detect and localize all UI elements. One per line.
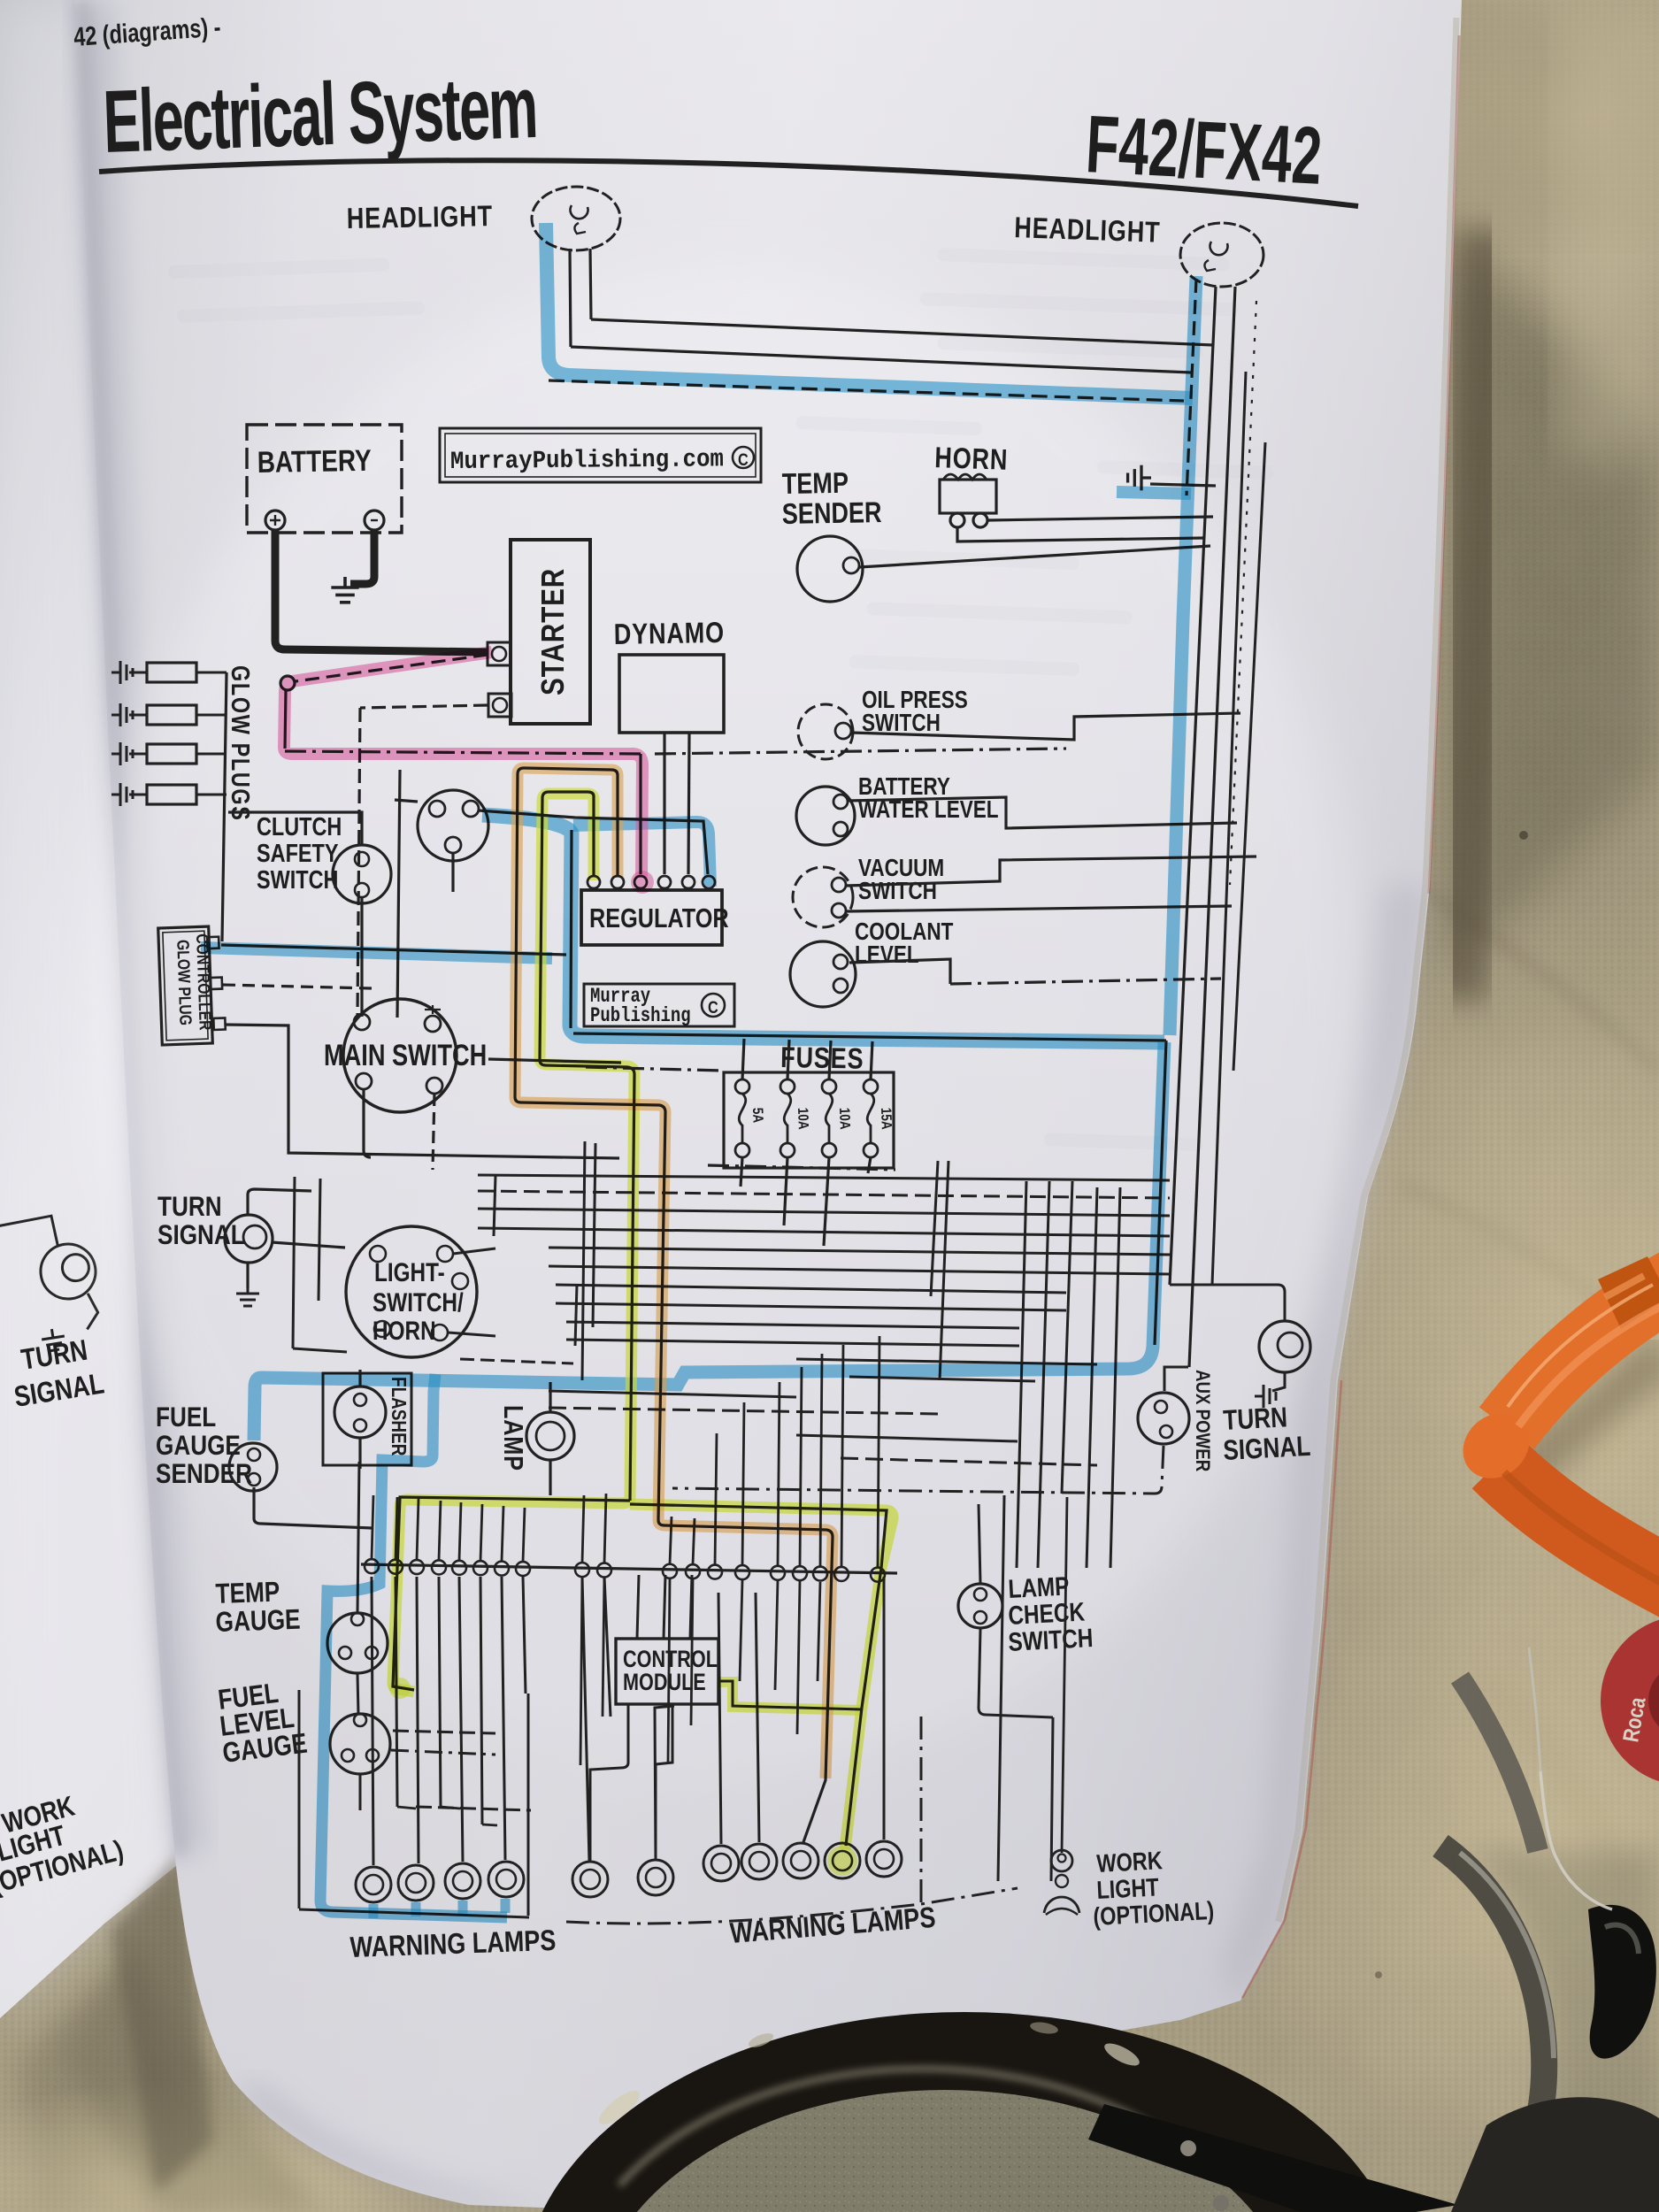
turn signal right lamp <box>1259 1321 1310 1372</box>
wire <box>931 1161 938 1296</box>
highlight blue right drop <box>1170 276 1196 1035</box>
vacuum switch <box>793 867 853 927</box>
junction node <box>871 1568 885 1582</box>
wire <box>849 1377 1035 1381</box>
murray publishing small box <box>584 984 734 1026</box>
wire <box>1062 1181 1072 1494</box>
flasher outline box <box>323 1373 411 1465</box>
junction node <box>388 1560 403 1574</box>
wire fuse feeds <box>742 1039 744 1079</box>
wire module top feeds <box>637 1575 639 1639</box>
wire <box>1087 1187 1097 1568</box>
wire battery water level to harness <box>848 797 1237 828</box>
highlight blue trunk right vertical <box>254 1042 1164 1440</box>
wire fuse dash-dot row <box>708 1165 895 1170</box>
warning lamp L4 <box>488 1862 524 1897</box>
warning lamp L1 <box>356 1867 391 1902</box>
junction node <box>432 1560 446 1574</box>
highlight yellow right branch <box>630 1504 893 1849</box>
ground (turn signal right) <box>1255 1385 1276 1408</box>
wire aux power dash-dot long <box>672 1446 1164 1494</box>
junction node <box>813 1567 827 1581</box>
temp gauge <box>327 1613 388 1673</box>
wire riser <box>820 1354 822 1567</box>
wire regulator t2 hook (orange) <box>515 768 833 1842</box>
wire controller terminal 3 L-run <box>225 1025 619 1158</box>
wire connector bottom stub <box>451 853 454 892</box>
wire dashed under blue drop <box>1187 279 1196 495</box>
ground (battery) <box>331 577 358 603</box>
wire riser <box>459 1502 461 1561</box>
wire work light drop <box>1062 1497 1067 1853</box>
junction node <box>495 1562 509 1576</box>
wire <box>566 1322 1019 1328</box>
wire horn to harness <box>987 517 1213 520</box>
wire flasher stubs <box>358 1370 361 1386</box>
wire trunk horizontal (blue highlighted) <box>573 1033 1166 1041</box>
wire controller terminal 1 (blue) <box>221 945 566 955</box>
wire right headlight main drop <box>1170 287 1216 1285</box>
junction node <box>793 1566 807 1580</box>
wire <box>478 1191 1170 1198</box>
light switch / horn <box>346 1226 477 1357</box>
wire right headlight second drop <box>1189 287 1235 1367</box>
wire riser <box>693 1518 695 1564</box>
highlight yellow module link <box>718 1682 860 1710</box>
fuse box <box>724 1072 894 1168</box>
wire riser <box>800 1367 802 1566</box>
wire trunk right vertical under blue <box>1155 1041 1166 1345</box>
wire <box>604 1577 611 1717</box>
wire yellow run right-down <box>540 1060 634 1501</box>
wire clutch switch down <box>360 897 363 1017</box>
junction node <box>410 1560 424 1574</box>
highlight orange main run <box>515 768 833 1778</box>
wire <box>523 1577 526 1694</box>
wire bundle left riser 2 <box>575 1285 577 1346</box>
junction node <box>708 1565 722 1579</box>
wire turn signal right feed <box>1170 1285 1285 1321</box>
wire turn signal right <box>272 1242 345 1248</box>
wire temp sender to harness <box>859 546 1210 567</box>
orange strap <box>1450 1256 1659 1591</box>
junction node <box>516 1562 530 1576</box>
red tape roll Roca <box>1601 1616 1659 1786</box>
aux power connector <box>1138 1393 1189 1444</box>
wire battery positive (thick) <box>275 530 488 652</box>
clutch safety switch <box>333 845 391 903</box>
wire battery negative (thick) <box>350 530 374 584</box>
fuel gauge sender <box>229 1443 277 1491</box>
wire riser <box>778 1382 780 1566</box>
highlight blue lamp stubs <box>369 1904 379 1918</box>
wire misc bottom dashes <box>393 1731 495 1733</box>
wire right bundle vertical 4 <box>1233 442 1265 1071</box>
wire coolant level to harness <box>849 959 950 984</box>
wire <box>480 1577 482 1824</box>
wire riser <box>396 1497 397 1560</box>
wire riser <box>439 1501 441 1560</box>
ground (turn signal) <box>236 1285 259 1306</box>
glow plug controller <box>158 926 227 1045</box>
turn signal lamp (dash) <box>225 1215 273 1263</box>
wire yellow horizontal to gauges <box>393 1497 630 1690</box>
wire fuel gauge dash right <box>391 1750 495 1755</box>
wire <box>459 1577 463 1862</box>
wire S drop to main switch <box>357 708 360 1016</box>
coolant level switch <box>790 941 856 1007</box>
wire lamp stubs <box>549 1382 551 1412</box>
wire vacuum switch to harness <box>846 856 1256 886</box>
wire <box>439 1577 441 1807</box>
wire headlight pair to right <box>591 319 1213 345</box>
title underline rule <box>99 160 1358 206</box>
highlight blue horn ground <box>1117 492 1191 494</box>
wire <box>566 1340 1019 1346</box>
fabric lighting <box>1248 885 1659 1876</box>
wire elbow joins <box>397 1807 416 1809</box>
starter <box>511 540 590 724</box>
wire dashed right margin <box>1230 301 1256 885</box>
wire oil press to harness <box>851 713 1240 740</box>
wire main switch lower pins <box>364 1089 371 1157</box>
temp sender <box>797 536 863 602</box>
fuse F1 5A <box>735 1079 749 1094</box>
wire <box>1017 1181 1026 1568</box>
warning lamp M1 <box>572 1862 608 1897</box>
wire bottom border dash-dot <box>566 1888 1018 1924</box>
wire starter S (dashed) <box>360 705 488 708</box>
wire harness left verticals <box>582 1141 585 1380</box>
dynamo <box>619 655 724 733</box>
wire riser <box>604 1494 606 1563</box>
highlight blue regulator cap <box>573 822 710 887</box>
wire riser <box>372 1495 373 1559</box>
wire glow plug bus <box>222 672 227 941</box>
glow plug 3 <box>111 742 133 765</box>
junction node <box>597 1563 611 1578</box>
wire <box>582 1577 589 1862</box>
wire <box>478 1228 1170 1236</box>
warning lamp R4 <box>825 1843 860 1878</box>
wire riser <box>480 1504 482 1561</box>
warning lamp L2 <box>398 1865 434 1901</box>
fuse F2 10A <box>780 1079 795 1094</box>
wire <box>796 1359 1097 1364</box>
bleed-through ghosting <box>937 248 1229 272</box>
wire <box>502 1577 505 1860</box>
dark round object <box>522 2012 1407 2212</box>
wire module bottoms <box>590 1704 628 1862</box>
glow plug 4 <box>111 783 133 806</box>
wire fuel gauge bottom <box>359 1775 362 1810</box>
warning lamps left box <box>298 1690 301 1909</box>
wire riser <box>417 1499 419 1560</box>
black strap over object <box>1088 2104 1458 2212</box>
wire dropper mid lamps <box>655 1706 674 1860</box>
wire <box>549 1248 1170 1255</box>
junction node <box>686 1564 700 1578</box>
ground (left page turn signal) <box>41 1327 66 1352</box>
wire temp to fuel gauge <box>357 1674 358 1715</box>
node relay junction <box>280 676 295 690</box>
junction node <box>834 1567 849 1581</box>
wire temp gauge riser <box>357 1462 359 1613</box>
page cast shadow on fabric <box>1456 230 1488 1000</box>
warning lamp R2 <box>741 1844 777 1879</box>
wire dynamo to regulator 1 <box>663 733 665 874</box>
wire fuel sender bottom <box>254 1487 372 1528</box>
page gap shadow <box>111 1851 212 2193</box>
wire <box>1038 1181 1049 1568</box>
control module <box>616 1639 718 1704</box>
oil pressure switch <box>798 704 853 759</box>
junction node <box>365 1559 379 1573</box>
wire turn signal right ground <box>1272 1372 1285 1391</box>
wire riser <box>670 1517 672 1564</box>
wire bottom right border vertical <box>920 1717 923 1904</box>
highlight blue trunk <box>482 815 1164 1042</box>
warning lamp R5 <box>866 1841 902 1877</box>
wire junction row <box>361 1564 897 1573</box>
lamp check switch <box>958 1584 1002 1628</box>
safety glasses <box>1460 1678 1538 1851</box>
wire <box>478 1209 1170 1216</box>
wire bus to regulator (dash-dot) <box>285 751 641 754</box>
wire regulator t1 hook (yellow) <box>540 792 594 1060</box>
wire lamp check risers <box>979 1504 980 1584</box>
wire lower horizontals <box>549 1391 796 1397</box>
wire module right (yellow) <box>718 1681 862 1709</box>
murray publishing watermark box <box>440 428 761 482</box>
highlight yellow gauge blob <box>389 1678 411 1699</box>
wire <box>998 1495 1004 1881</box>
highlight blue headlight left <box>546 223 1193 398</box>
wire switch leads <box>453 1248 495 1254</box>
work light <box>1051 1850 1072 1871</box>
warning lamp R3 <box>783 1843 818 1878</box>
wire riser <box>878 1336 879 1568</box>
junction node <box>575 1563 589 1577</box>
wire <box>556 1303 1066 1310</box>
junction node <box>735 1565 749 1579</box>
wire dash feed to fuse box <box>586 1067 722 1071</box>
lamp <box>526 1412 574 1460</box>
fuse F4 15A <box>864 1079 878 1094</box>
wire <box>1110 1187 1120 1568</box>
glow plug 2 <box>111 703 133 726</box>
ground near horn <box>1128 465 1151 491</box>
wire <box>478 1175 1170 1180</box>
highlight pink starter run <box>284 652 642 878</box>
wire <box>396 1577 397 1807</box>
junction node <box>452 1561 466 1575</box>
battery water level switch <box>796 787 855 845</box>
warning lamp M2 <box>638 1860 673 1895</box>
main switch <box>343 999 457 1112</box>
wire droppers extra <box>580 1577 582 1765</box>
wire vertical to main switch 2 <box>397 770 400 1018</box>
left book page <box>0 0 186 2018</box>
junction node <box>473 1561 488 1575</box>
wire clutch switch up-left <box>228 812 362 845</box>
horn <box>940 480 996 513</box>
junction node <box>771 1566 785 1580</box>
wire <box>556 1285 1066 1293</box>
warning lamp L3 <box>445 1863 480 1899</box>
wire riser <box>502 1506 503 1562</box>
highlight yellow lamp blob <box>827 1846 857 1876</box>
wire dynamo to regulator 2 <box>688 733 689 874</box>
wire fuse outputs <box>741 1157 742 1187</box>
wire riser <box>841 1345 843 1567</box>
fuel level gauge <box>330 1714 390 1774</box>
fuse F3 10A <box>822 1079 836 1094</box>
page fore-edge stack <box>1279 18 1456 1922</box>
wire riser <box>715 1433 717 1565</box>
wire headlight left drop <box>570 249 571 347</box>
glow plug 1 <box>111 661 133 684</box>
highlight pink terminal blob <box>631 871 654 894</box>
wire <box>883 1577 886 1839</box>
highlight blue glow controller <box>201 948 552 958</box>
highlight yellow main run <box>393 794 634 1692</box>
wire bundle left riser <box>494 1175 495 1236</box>
wire riser <box>742 1402 744 1565</box>
warning lamp R1 <box>703 1846 739 1881</box>
headlight right <box>1180 223 1263 287</box>
wire right bundle vertical 3 <box>1212 372 1246 1285</box>
wire <box>940 1161 949 1380</box>
dust specks <box>1519 831 1528 840</box>
regulator <box>581 890 722 945</box>
wire aux power up <box>1164 1367 1188 1391</box>
wire yellow right branch to lamp <box>630 1504 887 1846</box>
wire turn signal up <box>248 1189 311 1215</box>
wire riser <box>523 1508 525 1562</box>
headlight left <box>574 217 577 219</box>
wire node down <box>285 690 286 749</box>
wire main switch to right <box>488 1059 621 1063</box>
wire connector to regulator t6 <box>479 810 708 874</box>
wire connector drop (blue) <box>571 830 572 1028</box>
wire dashed headlight feed <box>549 380 1184 401</box>
connector 3-pin <box>418 790 488 861</box>
wire starter B to relay node (dashed) <box>296 655 488 681</box>
wire controller terminal 2 (dashed) <box>223 985 372 988</box>
wire turn signal ground drop <box>246 1263 249 1288</box>
flasher <box>334 1386 386 1438</box>
wire riser <box>582 1495 584 1563</box>
battery <box>247 425 402 533</box>
junction node <box>663 1564 677 1578</box>
wire <box>372 1577 373 1865</box>
wire <box>417 1577 419 1863</box>
wire <box>549 1266 1170 1274</box>
turn signal lamp (left page) <box>0 1210 104 1340</box>
highlight blue flasher zigzag <box>320 1374 507 1917</box>
